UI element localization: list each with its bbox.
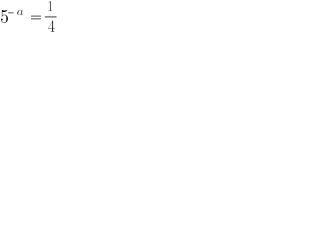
equals sign upper bar (31, 16, 41, 17)
equation 5^(-a) = 1/4 (0, 0, 60, 33)
fraction denominator 4 (48, 20, 55, 32)
digit 5 (base) (1, 10, 8, 23)
white background (0, 0, 60, 33)
superscript italic a (17, 10, 23, 15)
equals sign lower bar (31, 18, 41, 19)
fraction numerator 1 (48, 1, 52, 11)
superscript minus sign (8, 11, 13, 14)
fraction bar (45, 16, 57, 17)
